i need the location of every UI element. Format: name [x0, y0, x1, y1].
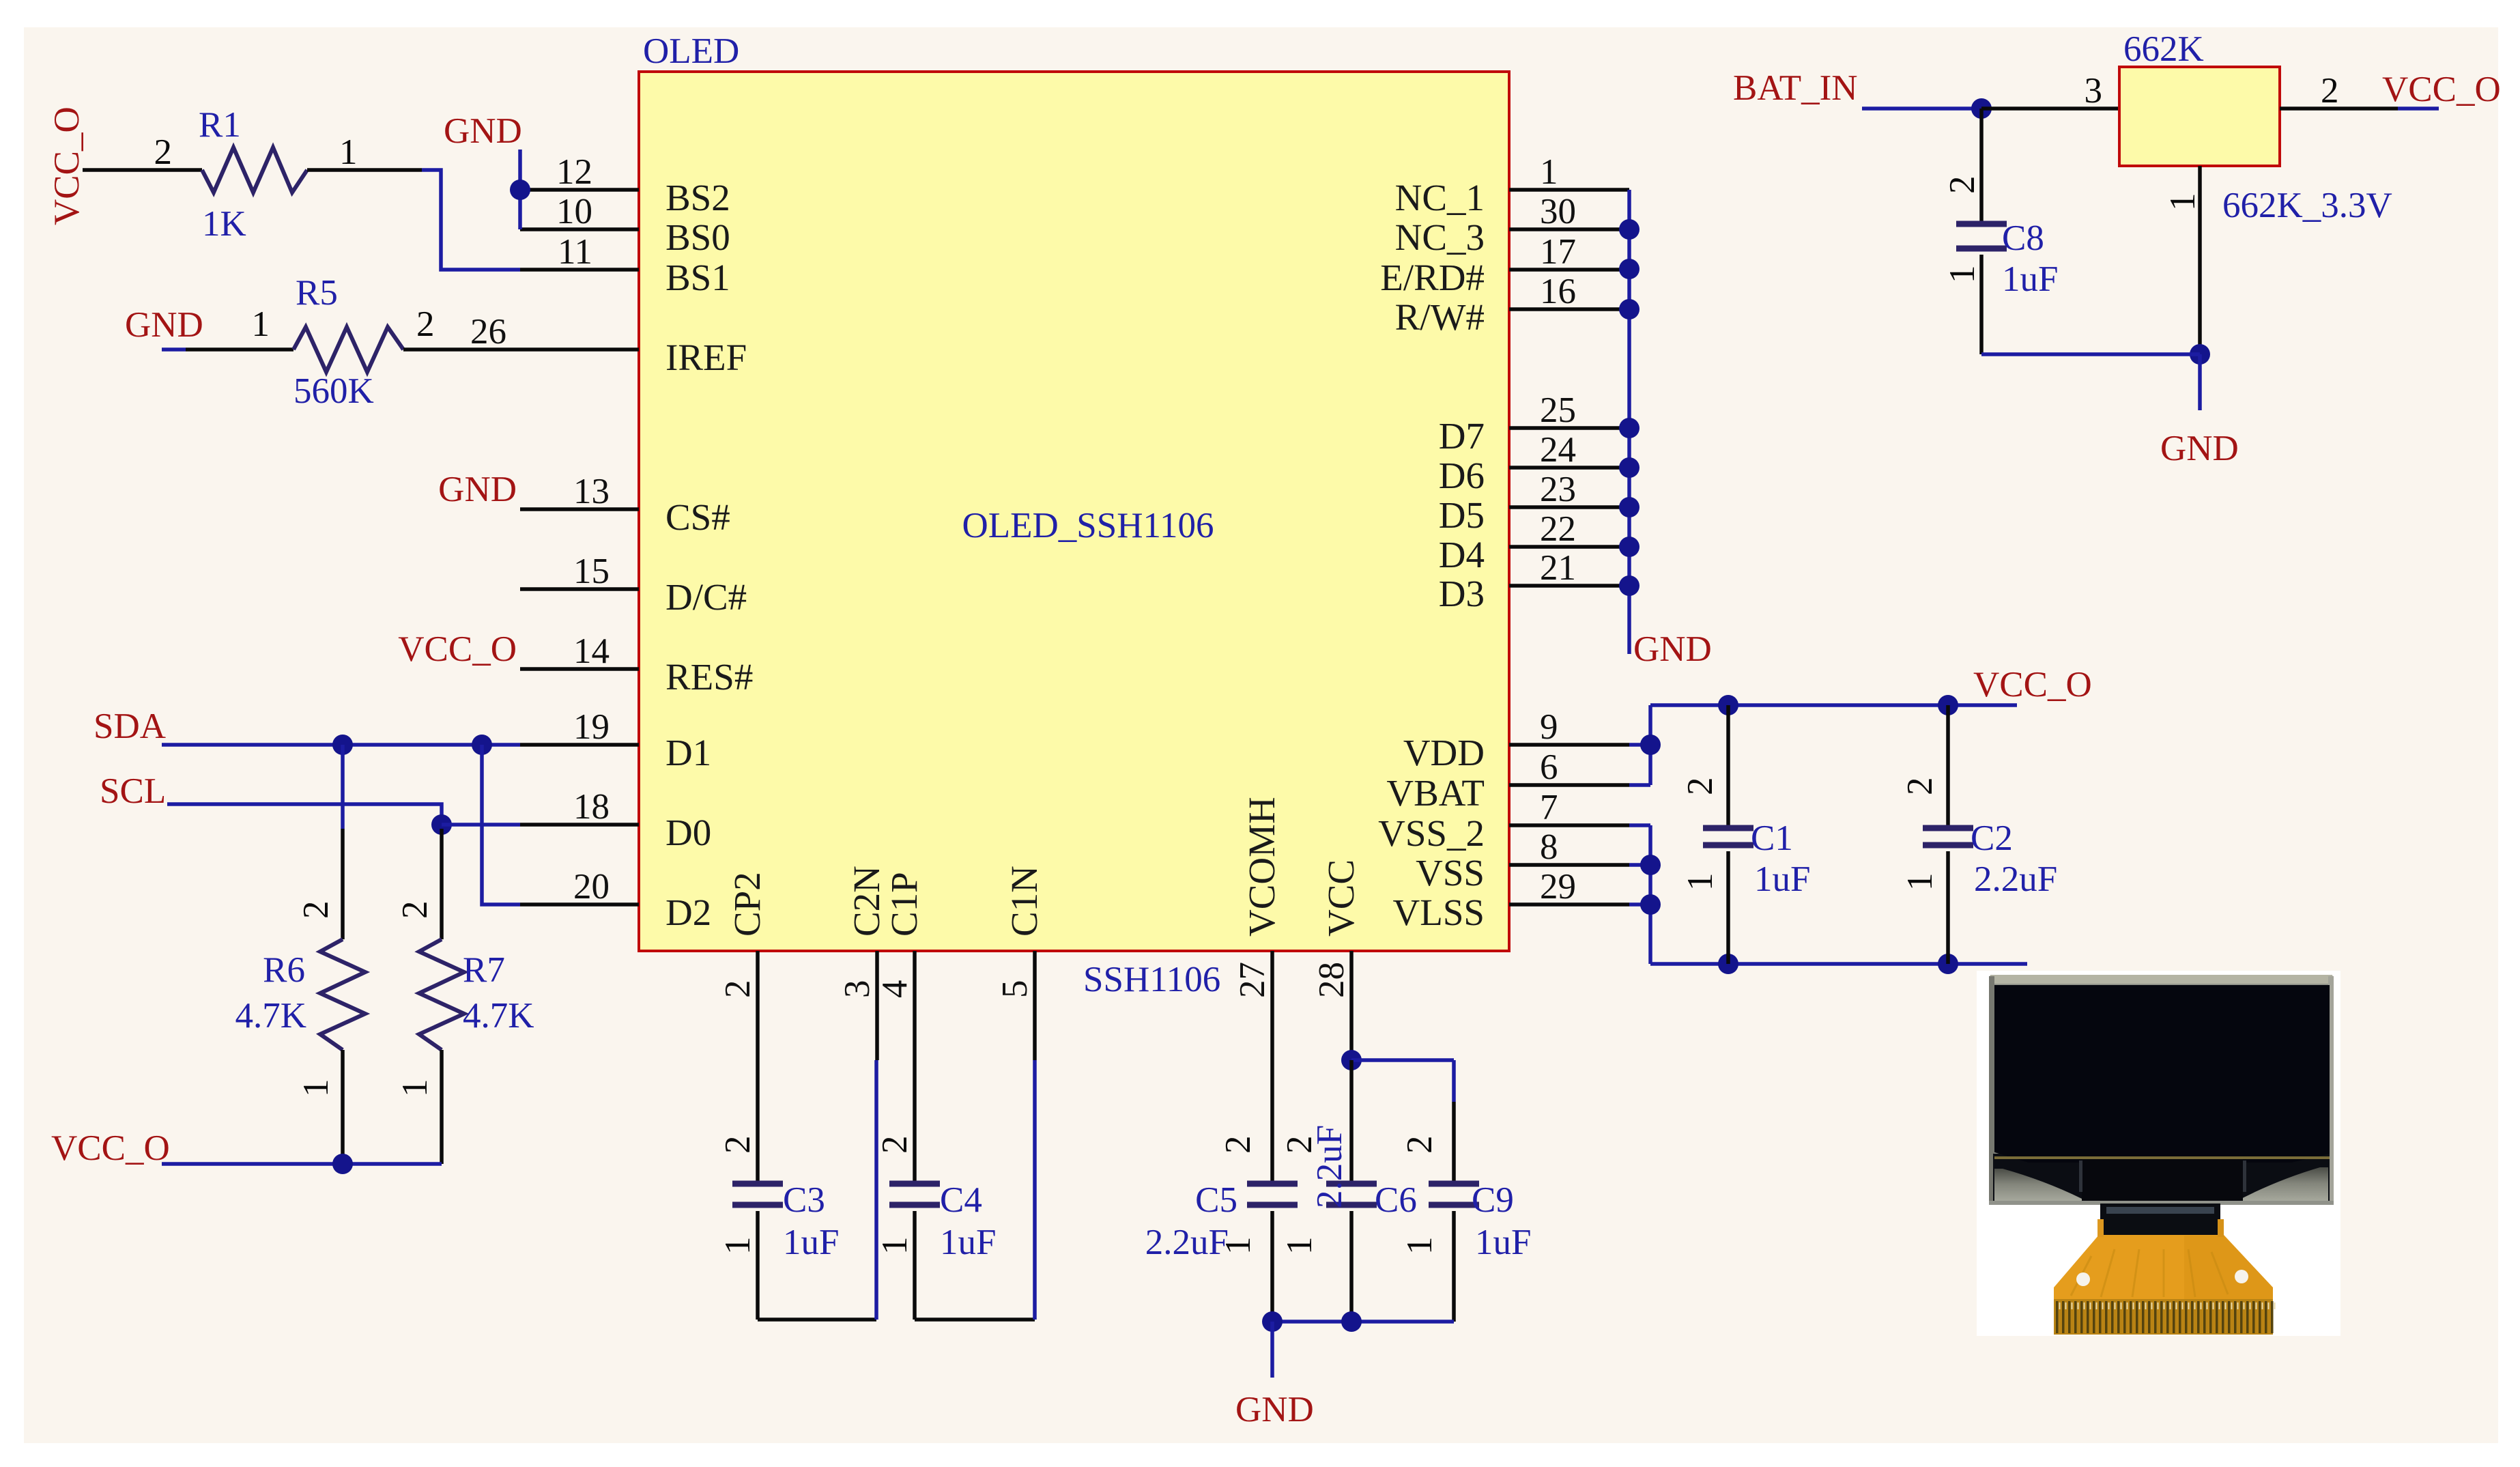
svg-text:SDA: SDA [94, 707, 166, 746]
svg-text:10: 10 [556, 192, 592, 231]
junction GND bus y=685 [1619, 457, 1640, 478]
pin 15 D/C# (left) [520, 587, 639, 591]
wire to VCC_O label [2398, 106, 2439, 111]
svg-text:2: 2 [718, 980, 758, 999]
C2 pin1 lead [1946, 851, 1950, 964]
svg-text:D2: D2 [665, 892, 711, 933]
pin 2 CP2 (bottom) [756, 951, 760, 1060]
svg-text:R1: R1 [199, 105, 241, 145]
wire 662K pin2 out [2280, 106, 2398, 111]
pin 25 D7 (right) [1509, 426, 1629, 430]
IC U1 OLED_SSH1106 body [639, 72, 1509, 951]
svg-text:1K: 1K [202, 204, 246, 244]
svg-text:1uF: 1uF [940, 1223, 996, 1262]
svg-text:C1P: C1P [883, 872, 925, 937]
C6 pin1 lead [1349, 1211, 1354, 1322]
junction BS2 GND [510, 180, 530, 200]
svg-text:VCC_O: VCC_O [51, 1128, 170, 1168]
svg-text:C2: C2 [1971, 818, 2013, 858]
wire to R5 pin1 [186, 347, 293, 352]
wire VDD/VBAT riser [1648, 705, 1652, 785]
pin 10 BS0 (left) [520, 227, 639, 231]
svg-text:19: 19 [573, 707, 610, 747]
regulator U2 662K body [2119, 67, 2280, 166]
capacitor C8 [1956, 221, 2007, 227]
svg-text:23: 23 [1540, 470, 1576, 509]
svg-text:2: 2 [1900, 778, 1940, 796]
junction C6 bottom [1341, 1311, 1362, 1332]
svg-text:9: 9 [1540, 707, 1558, 747]
pin 17 E/RD# (right) [1509, 268, 1629, 272]
svg-text:IREF: IREF [665, 337, 747, 378]
svg-text:C3: C3 [783, 1180, 825, 1220]
junction GND bus y=453 [1619, 299, 1640, 319]
svg-text:1uF: 1uF [1754, 859, 1810, 899]
wire VCC to C9 [1351, 1058, 1454, 1062]
wire pin1 to GND [2198, 354, 2202, 410]
svg-text:1: 1 [395, 1079, 435, 1098]
junction SDA/R6 [332, 735, 353, 755]
pin 21 D3 (right) [1509, 584, 1629, 588]
svg-text:D7: D7 [1439, 415, 1485, 457]
svg-text:2: 2 [1680, 778, 1720, 796]
svg-text:D1: D1 [665, 732, 711, 773]
wire to C9 pin2 [1452, 1060, 1456, 1102]
svg-text:20: 20 [573, 867, 610, 907]
wire C3 bottom to C2N [758, 1318, 876, 1322]
svg-text:C1: C1 [1751, 818, 1793, 858]
svg-text:4: 4 [875, 980, 915, 999]
pin 18 D0 (left) [520, 823, 639, 827]
junction GND bus y=336 [1619, 219, 1640, 240]
wire GND stub [1270, 1322, 1274, 1378]
resistor R1 body [202, 147, 307, 193]
svg-text:2: 2 [416, 304, 435, 344]
junction BAT_IN/C8 [1971, 98, 1992, 119]
svg-text:GND: GND [1633, 629, 1712, 669]
svg-text:1: 1 [252, 304, 270, 344]
wire C5/C6/C9 ground rail [1272, 1320, 1454, 1324]
svg-text:C1N: C1N [1003, 866, 1045, 937]
wire VDD stub [1629, 743, 1650, 747]
svg-text:CP2: CP2 [726, 872, 768, 937]
svg-text:BS2: BS2 [665, 177, 730, 218]
svg-text:1uF: 1uF [783, 1223, 839, 1262]
junction R6/VCC_O [332, 1154, 353, 1174]
svg-text:1: 1 [1400, 1237, 1440, 1255]
svg-text:R/W#: R/W# [1395, 296, 1485, 338]
svg-text:BS1: BS1 [665, 257, 730, 298]
svg-text:BAT_IN: BAT_IN [1733, 68, 1858, 108]
capacitor C9 [1429, 1181, 1479, 1187]
junction SCL/R7/D0 [431, 814, 452, 835]
C3 pin1 lead [756, 1211, 760, 1320]
R6 pin2 lead [341, 829, 345, 939]
svg-text:30: 30 [1540, 192, 1576, 231]
C8 pin1 lead [1979, 255, 1984, 354]
svg-text:2: 2 [1943, 176, 1982, 195]
svg-text:1: 1 [1540, 152, 1558, 192]
wire BAT_IN [1862, 106, 1981, 111]
pin 12 BS2 (left) [520, 188, 639, 192]
R6 pin1 lead [341, 1050, 345, 1164]
capacitor C4 [889, 1181, 940, 1187]
junction GND bus y=743 [1619, 497, 1640, 517]
pin 11 BS1 (left) [520, 268, 639, 272]
junction VCC pin/C9 takeoff [1341, 1050, 1362, 1070]
capacitor C6 [1326, 1181, 1377, 1187]
svg-text:25: 25 [1540, 390, 1576, 430]
pin 30 NC_3 (right) [1509, 227, 1629, 231]
svg-text:2.2uF: 2.2uF [1310, 1125, 1349, 1208]
wire GND-return rail [1650, 962, 2027, 966]
svg-text:560K: 560K [293, 371, 374, 411]
C2 pin2 lead [1946, 705, 1950, 828]
svg-text:R6: R6 [263, 950, 305, 990]
svg-text:15: 15 [573, 552, 610, 591]
svg-text:VSS: VSS [1416, 852, 1485, 894]
OLED module photo [1977, 971, 2340, 1336]
capacitor C3 [732, 1181, 783, 1187]
capacitor C2 [1923, 825, 1973, 831]
svg-text:VCOMH: VCOMH [1241, 797, 1283, 937]
svg-text:2: 2 [2321, 71, 2339, 111]
wire to 662K pin3 [1981, 106, 2119, 111]
svg-text:C5: C5 [1195, 1180, 1237, 1220]
junction C1 bottom [1718, 954, 1738, 974]
svg-text:2.2uF: 2.2uF [1145, 1223, 1229, 1262]
wire VCC_O to R1 pin2 [83, 168, 202, 172]
svg-text:22: 22 [1540, 509, 1576, 549]
svg-text:C2N: C2N [846, 866, 887, 937]
svg-text:BS0: BS0 [665, 216, 730, 258]
svg-text:1: 1 [718, 1237, 758, 1255]
wire R5 pin2 to IREF [403, 347, 520, 352]
C1 pin1 lead [1726, 851, 1730, 964]
junction GND bus y=858 [1619, 575, 1640, 596]
capacitor C1 [1703, 825, 1753, 831]
capacitor C5 [1247, 1181, 1298, 1187]
svg-text:1: 1 [1280, 1237, 1319, 1255]
svg-text:GND: GND [444, 111, 522, 151]
C9 pin1 lead [1452, 1211, 1456, 1322]
junction C5 bottom [1262, 1311, 1283, 1332]
C5 pin1 lead [1270, 1211, 1274, 1322]
svg-text:D4: D4 [1439, 534, 1485, 575]
svg-text:1: 1 [1680, 873, 1720, 892]
svg-text:VCC_O: VCC_O [2382, 70, 2501, 109]
wire GND to BS2/BS0 [518, 149, 522, 229]
wire riser to C1N pin [1033, 1060, 1037, 1320]
wire GND stub to R5 [162, 347, 186, 352]
svg-text:8: 8 [1540, 827, 1558, 867]
wire SDA to R6 pin2 [341, 745, 345, 829]
svg-text:7: 7 [1540, 788, 1558, 827]
pin 9 VDD (right) [1509, 743, 1629, 747]
wire C4 bottom to C1N [915, 1318, 1035, 1322]
svg-text:C9: C9 [1472, 1180, 1514, 1220]
pin 23 D5 (right) [1509, 505, 1629, 509]
svg-text:E/RD#: E/RD# [1380, 257, 1485, 298]
svg-text:6: 6 [1540, 747, 1558, 787]
resistor R7 body [419, 939, 464, 1050]
svg-text:12: 12 [556, 152, 592, 192]
pin 5 C1N (bottom) [1033, 951, 1037, 1060]
R7 pin2 lead [440, 829, 444, 939]
svg-text:1: 1 [296, 1079, 336, 1098]
C3 pin2 lead from CP2 [756, 1060, 760, 1184]
junction SDA/D2 branch [472, 735, 492, 755]
wire VSS riser [1648, 825, 1652, 964]
pin 14 RES# (left) [520, 667, 639, 671]
svg-text:VCC: VCC [1320, 859, 1362, 937]
junction C2 bottom [1938, 954, 1958, 974]
svg-text:1: 1 [339, 132, 358, 172]
svg-text:VLSS: VLSS [1393, 892, 1485, 933]
wire VCC_O to R6/R7 [162, 1162, 442, 1166]
wire VBAT stub [1629, 783, 1650, 787]
svg-text:13: 13 [573, 472, 610, 511]
junction GND bus y=801 [1619, 537, 1640, 557]
svg-text:3: 3 [837, 980, 877, 999]
svg-text:2: 2 [875, 1136, 915, 1154]
pin 7 VSS_2 (right) [1509, 823, 1629, 827]
C6 pin2 lead [1349, 1060, 1354, 1184]
svg-text:SSH1106: SSH1106 [1083, 960, 1220, 999]
wire VLSS stub [1629, 902, 1650, 907]
svg-text:VCC_O: VCC_O [1973, 665, 2092, 704]
svg-text:VDD: VDD [1403, 732, 1485, 773]
svg-text:C4: C4 [940, 1180, 982, 1220]
pin 3 C2N (bottom) [875, 951, 879, 1060]
wire SDA branch to D2 [482, 745, 520, 905]
svg-text:R7: R7 [463, 950, 505, 990]
wire VCC_O rail [1650, 703, 2017, 707]
svg-text:VCC_O: VCC_O [47, 106, 87, 225]
svg-text:D3: D3 [1439, 573, 1485, 614]
svg-text:GND: GND [125, 305, 203, 345]
svg-text:VCC_O: VCC_O [398, 629, 517, 669]
svg-text:2: 2 [296, 901, 336, 920]
wire C8 bottom to pin1 [1981, 352, 2200, 356]
svg-text:3: 3 [2085, 71, 2103, 111]
svg-text:NC_3: NC_3 [1395, 216, 1485, 258]
svg-text:1: 1 [1900, 873, 1940, 892]
svg-text:D6: D6 [1439, 455, 1485, 496]
pin 26 IREF (left) [520, 347, 639, 352]
svg-text:VBAT: VBAT [1386, 772, 1485, 814]
pin 8 VSS (right) [1509, 863, 1629, 867]
svg-text:2.2uF: 2.2uF [1974, 859, 2057, 899]
pin 13 CS# (left) [520, 507, 639, 511]
wire GND bus right of IC [1627, 190, 1631, 654]
svg-text:26: 26 [470, 312, 506, 352]
svg-text:2: 2 [154, 132, 173, 172]
C8 pin2 lead [1979, 109, 1984, 224]
svg-text:662K_3.3V: 662K_3.3V [2222, 186, 2392, 225]
pin 24 D6 (right) [1509, 466, 1629, 470]
wire VSS_2 stub [1629, 823, 1650, 827]
wire R1 pin1 lead [307, 168, 422, 172]
svg-text:GND: GND [438, 470, 517, 509]
662K pin1 lead [2198, 166, 2202, 354]
svg-text:1uF: 1uF [1475, 1223, 1531, 1262]
wire SDA to D1 [162, 743, 520, 747]
pin 22 D4 (right) [1509, 545, 1629, 549]
wire VSS stub [1629, 863, 1650, 867]
junction C2 top [1938, 695, 1958, 715]
svg-text:4.7K: 4.7K [463, 996, 534, 1036]
junction GND bus y=627 [1619, 418, 1640, 438]
svg-text:18: 18 [573, 787, 610, 827]
svg-text:D/C#: D/C# [665, 576, 747, 618]
svg-text:D0: D0 [665, 812, 711, 853]
svg-text:2: 2 [718, 1136, 758, 1154]
svg-text:RES#: RES# [665, 656, 753, 698]
pin 20 D2 (left) [520, 902, 639, 907]
pin 1 NC_1 (right) [1509, 188, 1629, 192]
svg-text:1uF: 1uF [2002, 259, 2058, 299]
svg-text:NC_1: NC_1 [1395, 177, 1485, 218]
svg-text:CS#: CS# [665, 496, 730, 538]
wire R1 to BS1 pin11 [422, 170, 520, 270]
resistor R6 body [320, 939, 365, 1050]
junction pin1/C8 bottom [2190, 344, 2210, 365]
svg-text:C6: C6 [1375, 1180, 1417, 1220]
junction VLSS riser [1640, 894, 1661, 915]
svg-text:2: 2 [395, 901, 435, 920]
svg-text:1: 1 [1943, 266, 1982, 284]
svg-text:5: 5 [995, 980, 1035, 999]
resistor R5 body [293, 327, 403, 372]
pin 6 VBAT (right) [1509, 783, 1629, 787]
pin 29 VLSS (right) [1509, 902, 1629, 907]
C4 pin1 lead [913, 1211, 917, 1320]
junction C1 top [1718, 695, 1738, 715]
pin 27 VCOMH (bottom) [1270, 951, 1274, 1060]
C1 pin2 lead [1726, 705, 1730, 828]
wire riser to C2N pin [874, 1060, 878, 1320]
wire SCL to D0 [442, 823, 520, 827]
svg-text:27: 27 [1233, 962, 1272, 998]
svg-text:OLED: OLED [643, 31, 739, 71]
junction VSS riser [1640, 855, 1661, 875]
svg-text:VSS_2: VSS_2 [1378, 812, 1485, 854]
wire SCL [167, 804, 442, 825]
svg-text:28: 28 [1312, 962, 1351, 998]
pin 28 VCC (bottom) [1349, 951, 1354, 1060]
svg-text:11: 11 [558, 232, 592, 272]
svg-text:2: 2 [1218, 1136, 1258, 1154]
C9 pin2 lead [1452, 1102, 1456, 1184]
svg-text:16: 16 [1540, 272, 1576, 311]
svg-text:1: 1 [875, 1237, 915, 1255]
pin 16 R/W# (right) [1509, 307, 1629, 311]
svg-text:GND: GND [1235, 1390, 1314, 1429]
svg-text:SCL: SCL [100, 771, 166, 811]
C4 pin2 lead from C1P [913, 1060, 917, 1184]
svg-text:24: 24 [1540, 430, 1576, 470]
R7 pin1 lead [440, 1050, 444, 1164]
svg-text:C8: C8 [2002, 218, 2044, 258]
svg-text:R5: R5 [296, 273, 338, 313]
svg-text:OLED_SSH1106: OLED_SSH1106 [962, 506, 1214, 545]
pin 4 C1P (bottom) [913, 951, 917, 1060]
svg-text:4.7K: 4.7K [235, 996, 306, 1036]
svg-text:D5: D5 [1439, 494, 1485, 536]
svg-text:21: 21 [1540, 548, 1576, 588]
C5 pin2 lead from VCOMH [1270, 1060, 1274, 1184]
pin 19 D1 (left) [520, 743, 639, 747]
svg-text:1: 1 [2163, 193, 2203, 212]
svg-text:14: 14 [573, 631, 610, 671]
svg-text:29: 29 [1540, 867, 1576, 907]
junction VDD riser [1640, 735, 1661, 755]
junction GND bus y=394 [1619, 259, 1640, 279]
svg-text:17: 17 [1540, 232, 1576, 272]
svg-text:662K: 662K [2123, 29, 2204, 69]
svg-text:2: 2 [1400, 1136, 1440, 1154]
svg-text:GND: GND [2160, 429, 2239, 468]
